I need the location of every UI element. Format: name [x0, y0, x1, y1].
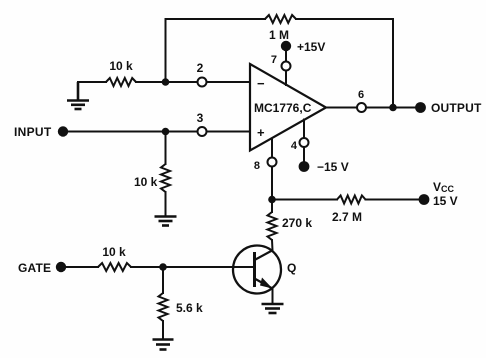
svg-text:INPUT: INPUT — [14, 125, 52, 139]
node junction input/R3 — [162, 128, 170, 136]
wire R3 to ground — [165, 192, 167, 216]
VCC terminal — [419, 180, 458, 208]
svg-text:OUTPUT: OUTPUT — [431, 101, 482, 115]
wire input to pin 3 — [66, 131, 198, 133]
resistor R 1M — [265, 15, 296, 42]
resistor R5 2.7 M — [332, 196, 366, 225]
wire R2 to pin 2 — [136, 81, 198, 83]
pin 8 — [254, 158, 277, 173]
wire top feedback left segment — [166, 19, 266, 83]
-15V supply terminal — [299, 160, 349, 174]
svg-text:6: 6 — [358, 89, 364, 101]
wire pin 6 to OUTPUT — [366, 107, 416, 109]
INPUT terminal — [14, 125, 68, 139]
wire pin 2 to op-amp — [207, 81, 252, 83]
resistor R3 10 k (vertical) — [134, 164, 170, 192]
svg-text:15 V: 15 V — [433, 194, 458, 208]
svg-text:MC1776,C: MC1776,C — [254, 101, 312, 115]
wire R7 to ground — [162, 321, 164, 339]
wire pin 3 to op-amp — [207, 131, 252, 133]
svg-text:5.6 k: 5.6 k — [176, 301, 203, 315]
node junction gate/R7 — [159, 263, 167, 271]
wire +15V stub — [285, 48, 287, 85]
wire R5 to Vcc — [366, 199, 420, 201]
wire top feedback right segment — [296, 19, 393, 108]
svg-text:270 k: 270 k — [282, 216, 312, 230]
pin 3 terminal — [197, 111, 207, 136]
ground (below R7) — [153, 340, 174, 350]
svg-text:Q: Q — [287, 261, 296, 275]
op-amp U1 MC1776,C — [250, 64, 326, 151]
svg-text:8: 8 — [254, 160, 260, 172]
svg-text:4: 4 — [291, 140, 298, 152]
GATE terminal — [18, 261, 66, 275]
node junction feedback/pin2 — [162, 78, 170, 86]
svg-text:GATE: GATE — [18, 261, 51, 275]
svg-text:2.7 M: 2.7 M — [332, 210, 362, 224]
svg-text:−: − — [257, 76, 265, 91]
ground (emitter) — [262, 304, 284, 313]
pin 7 — [271, 54, 291, 71]
svg-text:+15V: +15V — [297, 40, 325, 54]
svg-text:10 k: 10 k — [109, 59, 133, 73]
wire pin 8 stub — [271, 139, 273, 200]
svg-text:2: 2 — [197, 61, 204, 75]
svg-text:3: 3 — [197, 111, 204, 125]
svg-text:10 k: 10 k — [102, 245, 126, 259]
transistor Q1 — [233, 246, 296, 294]
node junction pin8/R4/R5 — [268, 196, 276, 204]
wire junction to R7 — [162, 267, 164, 293]
svg-text:+: + — [257, 125, 265, 140]
wire junction to R5 — [272, 199, 337, 201]
+15V supply terminal — [281, 40, 326, 54]
resistor R7 5.6 k (vertical) — [159, 293, 204, 321]
wire op-amp output to pin 6 — [326, 107, 357, 109]
ground (left, pin-2 network) — [67, 82, 89, 109]
svg-text:10 k: 10 k — [134, 175, 158, 189]
ground (below R3) — [155, 217, 177, 226]
pin 2 terminal — [197, 61, 207, 87]
resistor R4 270 k (vertical) — [268, 212, 313, 240]
svg-text:−15 V: −15 V — [317, 160, 349, 174]
wire -15V stub — [303, 120, 305, 162]
resistor R2 10 k — [106, 59, 136, 86]
wire junction to R3 — [165, 132, 167, 165]
wire ground to R2 — [78, 81, 106, 83]
pin 4 — [291, 138, 309, 152]
wire R4 to collector — [271, 240, 274, 251]
node junction output/feedback — [389, 104, 397, 112]
svg-text:7: 7 — [271, 54, 277, 66]
pin 6 — [357, 89, 366, 112]
wire R6 to base — [131, 266, 254, 268]
svg-text:1 M: 1 M — [269, 28, 289, 42]
wire junction to R4 — [271, 200, 273, 213]
wire gate to R6 — [64, 266, 98, 268]
wire emitter to ground — [272, 288, 274, 304]
OUTPUT terminal — [415, 101, 482, 115]
resistor R6 10 k — [98, 245, 131, 271]
